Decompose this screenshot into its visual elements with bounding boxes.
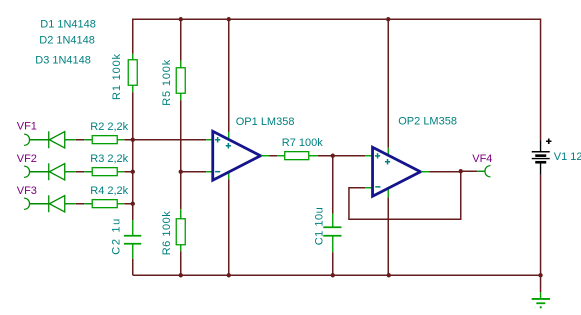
wire OP2 V+ pin: [387, 19, 389, 156]
svg-text:V1 12: V1 12: [554, 151, 581, 163]
svg-text:OP2 LM358: OP2 LM358: [398, 115, 457, 127]
resistor R4: [90, 185, 128, 208]
wire C2 to bottom bus: [132, 259, 134, 276]
svg-text:C1 10u: C1 10u: [313, 207, 325, 245]
node bottom bus / R6: [179, 273, 183, 277]
node top bus / R5: [179, 17, 183, 21]
node C (OP2 output): [459, 169, 463, 173]
diode D2: [49, 163, 65, 180]
wire OP2 output to node C: [421, 171, 461, 173]
resistor R6: [161, 209, 186, 255]
resistor R7: [282, 137, 323, 160]
battery V1: [532, 139, 581, 175]
node A (R5/R6 junction): [179, 170, 183, 174]
svg-text:VF3: VF3: [17, 185, 37, 197]
wire OP1 V- pin to bottom bus: [228, 171, 230, 276]
ground: [532, 292, 550, 308]
node bottom bus / battery-ground: [538, 273, 542, 277]
wire node B down to C1: [332, 156, 334, 214]
wire R7 to node B: [318, 155, 333, 157]
op-amp OP2: [373, 115, 457, 196]
node summing row1: [131, 138, 135, 142]
wire summing node to OP1 non-inverting input: [133, 139, 213, 141]
wire feedback OP2 output to inverting input: [349, 171, 461, 219]
resistor R5: [161, 19, 186, 106]
node bottom bus / OP2 V-: [387, 273, 391, 277]
capacitor C1: [313, 207, 341, 252]
connector VF4: [472, 153, 492, 177]
node top bus / OP2 V+: [386, 17, 390, 21]
connector VF2: [17, 153, 49, 178]
connector VF3: [17, 185, 49, 210]
node summing row2: [131, 170, 135, 174]
wire D2 to R3: [65, 171, 93, 173]
node top bus / OP1 V+: [227, 17, 231, 21]
svg-text:R2 2,2k: R2 2,2k: [90, 121, 128, 133]
svg-text:R7 100k: R7 100k: [282, 137, 323, 149]
op-amp OP1: [213, 116, 295, 181]
resistor R2: [90, 121, 128, 144]
diode D3: [49, 195, 65, 212]
wire node C to VF4: [461, 170, 485, 172]
wire to ground: [540, 275, 542, 292]
wire OP2 V- pin to bottom bus: [387, 187, 389, 276]
resistor R1: [111, 53, 138, 100]
node bottom bus / C1: [331, 273, 335, 277]
node B (R7/C1/OP2+): [331, 154, 335, 158]
svg-text:D3 1N4148: D3 1N4148: [35, 55, 91, 67]
wire summing column row1-row3: [132, 140, 134, 221]
wire C1 to bottom bus: [332, 252, 334, 275]
wire top bus: [133, 19, 541, 140]
svg-text:VF2: VF2: [17, 153, 37, 165]
wire R6 to bottom bus: [180, 251, 182, 275]
wire R1 bottom to summing node: [132, 92, 134, 140]
wire bottom bus: [133, 274, 541, 276]
svg-text:R3 2,2k: R3 2,2k: [90, 153, 128, 165]
node bottom bus / OP1 V-: [227, 273, 231, 277]
diode D1: [49, 131, 65, 148]
svg-text:R5 100k: R5 100k: [161, 59, 173, 106]
wire battery to bottom bus: [540, 175, 542, 276]
wire OP1 output to R7: [261, 155, 285, 157]
wire D3 to R4: [65, 203, 93, 205]
wire R4 to summing node: [124, 203, 133, 205]
svg-text:D2 1N4148: D2 1N4148: [39, 34, 95, 46]
svg-text:C2 1u: C2 1u: [110, 219, 122, 255]
svg-text:R1 100k: R1 100k: [111, 53, 123, 100]
wire node A to OP1 inverting input: [181, 171, 213, 173]
wire R3 to summing node: [124, 171, 133, 173]
resistor R3: [90, 153, 128, 176]
svg-text:VF1: VF1: [17, 120, 37, 132]
wire D1 to R2: [65, 139, 93, 141]
capacitor C2: [110, 219, 141, 259]
svg-text:D1 1N4148: D1 1N4148: [40, 19, 96, 31]
svg-text:R4 2,2k: R4 2,2k: [90, 185, 128, 197]
svg-text:OP1 LM358: OP1 LM358: [236, 116, 295, 128]
wire node A to R6: [180, 172, 182, 210]
node summing row3: [131, 202, 135, 206]
svg-text:VF4: VF4: [472, 153, 492, 165]
svg-text:R6 100k: R6 100k: [161, 211, 173, 256]
connector VF1: [17, 120, 49, 145]
wire OP1 V+ pin: [228, 19, 230, 141]
wire R2 to summing node: [124, 139, 133, 141]
wire R5 to node A: [180, 100, 182, 172]
wire node B to OP2 non-inverting input: [333, 155, 372, 157]
